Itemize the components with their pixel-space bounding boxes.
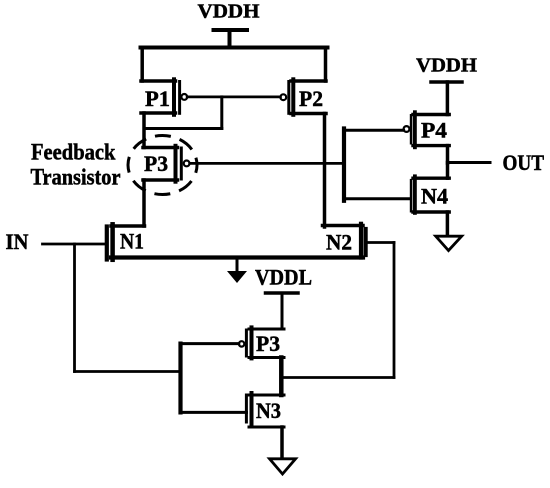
wire N2 gate right [368, 241, 395, 244]
wire P1 drain down to P3 source [142, 113, 146, 148]
wire input bar to P4 gate [344, 129, 404, 132]
wire cross-couple horizontal to P1 drain [144, 127, 222, 130]
wire rail drop to P1 source [140, 48, 144, 82]
wire IN to N1 gate [43, 243, 105, 246]
wire IN down-branch vertical [73, 244, 76, 372]
transistor N4 (NMOS) [411, 176, 449, 213]
wire N2 gate down [393, 243, 396, 378]
svg-text:P3: P3 [256, 331, 280, 356]
svg-text:P1: P1 [145, 86, 170, 111]
wire bottom inverter input horizontal [75, 370, 181, 373]
svg-text:N4: N4 [421, 184, 448, 209]
transistor P2 (PMOS, mirrored) [280, 79, 326, 115]
wire input bar to P3 gate [181, 342, 239, 345]
wire common source rail N1-N2 [111, 255, 363, 259]
power symbol VDDH top (T-bar) [214, 30, 248, 48]
dashed circle around feedback transistor P3 [128, 136, 197, 195]
wire to bottom inverter output [282, 376, 395, 379]
svg-text:Transistor: Transistor [31, 165, 121, 190]
wire bottom inverter output bar [279, 358, 284, 396]
svg-text:OUT: OUT [503, 150, 545, 175]
svg-text:N3: N3 [256, 398, 281, 423]
ground symbol (bottom inverter) [270, 459, 296, 474]
wire top VDDH rail [141, 46, 328, 50]
power symbol bottom inverter supply (T-bar) [266, 293, 299, 329]
svg-text:P4: P4 [421, 118, 447, 143]
wire P1 gate to P2 gate [187, 96, 280, 99]
svg-text:N1: N1 [120, 229, 144, 254]
transistor N1 (NMOS) [107, 224, 145, 259]
power symbol VDDH right (T-bar) [431, 82, 462, 115]
wire cross-couple vertical [220, 97, 223, 129]
transistor N2 (NMOS, mirrored) [323, 224, 366, 258]
wire bottom inverter input bar [178, 344, 182, 413]
wire P4 drain to OUT node [446, 146, 450, 163]
wire output inverter input bar [342, 129, 346, 201]
svg-text:VDDH: VDDH [198, 1, 260, 23]
wire P3 gate to inverter input (long) [190, 162, 344, 165]
wire rail drop to P2 source [324, 48, 328, 82]
wire input bar to N4 gate [344, 197, 410, 200]
svg-text:N2: N2 [326, 230, 352, 255]
svg-text:Feedback: Feedback [31, 140, 116, 165]
transistor P3 feedback (PMOS) [143, 146, 190, 182]
wire N3 source to ground [280, 427, 284, 459]
transistor N3 (NMOS) [246, 393, 284, 427]
transistor P1 (PMOS) [141, 79, 187, 115]
power symbol VDDL arrow [227, 258, 247, 283]
wire N4 source to ground [446, 212, 450, 236]
transistor P3 bottom (PMOS) [239, 327, 284, 358]
wire OUT [448, 161, 491, 164]
svg-text:VDDL: VDDL [255, 264, 312, 289]
ground symbol (output inverter) [436, 236, 462, 250]
wire OUT node to N4 drain [446, 163, 450, 179]
transistor P4 (PMOS) [404, 112, 450, 147]
wire P3 drain down to N1 drain [142, 180, 146, 226]
svg-text:P2: P2 [299, 86, 323, 111]
wire input bar to N3 gate [181, 411, 247, 414]
svg-text:IN: IN [6, 229, 29, 254]
svg-text:VDDH: VDDH [416, 55, 477, 77]
wire P2 drain down to N2 drain [323, 114, 327, 228]
svg-text:P3: P3 [144, 151, 168, 176]
